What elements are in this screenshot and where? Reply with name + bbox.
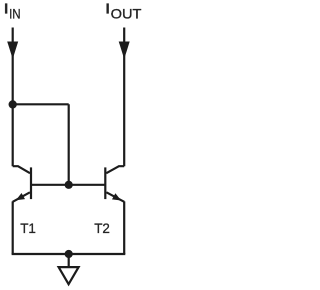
wire I_OUT vertical (output current line, right): [123, 28, 125, 167]
wire base rail connecting T1 base and T2 base: [31, 184, 105, 186]
transistor T1 (NPN, diode-connected side): [13, 166, 31, 202]
wire horizontal from I_IN node to center column: [13, 103, 69, 105]
wire stub to ground: [68, 254, 70, 266]
junction node bottom rail to ground (dot): [65, 250, 73, 258]
svg-text:IN: IN: [9, 6, 21, 22]
arrowhead current direction I_IN: [7, 42, 18, 60]
svg-text:T1: T1: [20, 221, 36, 236]
arrowhead current direction I_OUT: [119, 42, 130, 60]
junction node I_IN / T1 collector (dot): [9, 100, 17, 108]
junction node base rail (dot): [65, 181, 73, 189]
wire T1 emitter vertical down to bottom rail: [12, 201, 14, 254]
wire T2 emitter vertical down to bottom rail: [123, 201, 125, 254]
svg-text:T2: T2: [94, 221, 110, 236]
wire I_IN vertical (input current line, left): [12, 28, 14, 167]
transistor T2 (NPN, output side): [105, 166, 124, 202]
svg-text:I: I: [106, 2, 110, 18]
ground symbol: [59, 267, 79, 284]
svg-text:OUT: OUT: [111, 6, 142, 22]
svg-text:I: I: [4, 2, 8, 18]
wire bottom rail (emitter rail): [12, 253, 126, 255]
wire center vertical from collector node down to base rail: [68, 104, 70, 185]
